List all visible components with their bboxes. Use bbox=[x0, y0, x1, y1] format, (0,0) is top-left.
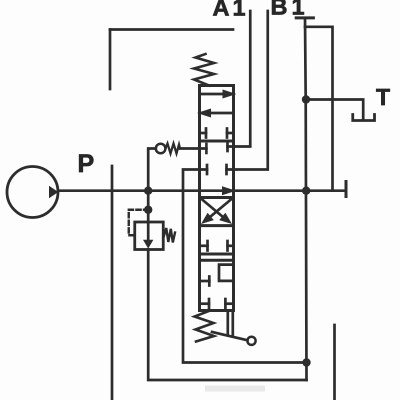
wire P supply line bbox=[58, 189, 346, 192]
lever arm bbox=[212, 332, 248, 340]
relief valve RV1 spring bbox=[163, 228, 175, 243]
valve section divider 5 bbox=[200, 259, 234, 262]
wire port B to riser bbox=[227, 11, 268, 170]
check valve CV1 spring bbox=[166, 144, 181, 154]
valve section divider 3 bbox=[200, 224, 234, 227]
section5 closed port right lower bbox=[225, 302, 233, 305]
section1 closed port left bbox=[200, 132, 207, 135]
lever knob bbox=[247, 337, 255, 345]
wire relief valve feed bbox=[147, 191, 150, 222]
section3 crossed arrow down-left bbox=[210, 199, 232, 217]
enclosure left vertical lower segment bbox=[111, 166, 114, 400]
valve top spring bbox=[194, 54, 214, 86]
wire port A to A1 riser bbox=[228, 11, 251, 147]
relief valve RV1 flow arrow bbox=[147, 224, 150, 240]
section5 port left bbox=[200, 280, 210, 283]
node junction tank branch bbox=[302, 95, 310, 103]
svg-text:P: P bbox=[78, 150, 95, 178]
section4 closed port right bbox=[228, 244, 234, 247]
wire port B left branch bbox=[183, 170, 307, 363]
section2 port A end bar bbox=[226, 142, 229, 151]
section3 crossed arrow down-right bbox=[202, 199, 224, 217]
svg-text:A1: A1 bbox=[213, 0, 249, 21]
node junction pilot branch bbox=[144, 206, 152, 214]
valve section divider 4 bbox=[200, 253, 234, 256]
node junction bottom return bbox=[302, 358, 310, 366]
relief valve RV1 body bbox=[135, 222, 164, 250]
wire B1 right branch bbox=[305, 27, 333, 191]
svg-text:T: T bbox=[376, 84, 390, 110]
valve bottom spring bbox=[195, 311, 215, 342]
wire check valve riser bbox=[148, 149, 156, 191]
node junction P/check-valve branch bbox=[144, 187, 152, 195]
enclosure left vertical upper segment bbox=[109, 30, 112, 90]
section2 port B right end bar bbox=[225, 165, 228, 174]
valve port end bar (check valve port) bbox=[205, 144, 208, 153]
enclosure top-left bracket horizontal bbox=[110, 28, 233, 31]
B1 port cap bar bbox=[296, 16, 313, 19]
wire tank branch bbox=[306, 100, 363, 121]
section4 closed port left bbox=[200, 244, 208, 247]
check valve CV1 ball bbox=[156, 144, 166, 154]
wire relief valve drain bbox=[148, 250, 306, 381]
valve section divider 1 bbox=[200, 140, 234, 143]
wire check valve to valve port bbox=[180, 147, 206, 150]
section2 P flow arrow head bbox=[222, 186, 236, 195]
section5 closed port left lower bbox=[200, 302, 210, 305]
wire bottom right tank line bbox=[333, 325, 336, 400]
pump P1 circle bbox=[7, 167, 58, 218]
section1 right flow arrow bbox=[200, 93, 226, 96]
valve section divider 2 bbox=[200, 196, 234, 199]
pump P1 outlet triangle bbox=[49, 186, 58, 198]
wire B1 stem bbox=[305, 18, 307, 380]
relief valve RV1 pilot line (dashed) bbox=[129, 210, 148, 236]
P line end plug bar bbox=[345, 182, 348, 197]
section5 internal pocket bbox=[219, 265, 234, 281]
lever stem double line bbox=[226, 311, 229, 335]
node junction P line / B1 stem bbox=[302, 187, 310, 195]
tank symbol bbox=[353, 115, 375, 121]
section1 left flow arrow bbox=[207, 112, 233, 115]
section2 port B left end bar bbox=[206, 165, 209, 174]
section1 closed port right bbox=[227, 132, 234, 135]
directional valve DV1 body outline bbox=[200, 86, 234, 311]
